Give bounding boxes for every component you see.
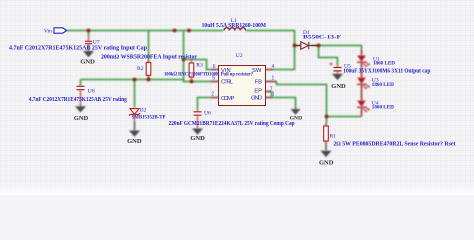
svg-text:U8: U8 — [88, 89, 95, 95]
LED U3 — [357, 63, 370, 90]
wire U5 branch — [319, 46, 338, 66]
node SW/L1/D1 — [293, 44, 297, 48]
capacitor U5 (polarized) — [330, 63, 342, 74]
svg-text:SW: SW — [252, 68, 262, 74]
capacitor U7 — [85, 37, 92, 49]
wire VIN pin jog — [184, 60, 211, 70]
node R3 tap — [182, 58, 186, 62]
ground under D2 — [127, 121, 142, 145]
svg-text:1860 LED: 1860 LED — [373, 61, 395, 67]
svg-text:10uH 5.5A SRR1260-100M: 10uH 5.5A SRR1260-100M — [202, 23, 267, 29]
svg-text:100kΩ RNCP1206FTD100K Pull up: 100kΩ RNCP1206FTD100K Pull up resistor? — [164, 71, 253, 77]
pin stub COMP 2 — [211, 97, 219, 99]
IC pin numbers — [211, 64, 274, 97]
node Vin/U7 — [87, 29, 91, 33]
wire COMP to U6 — [198, 98, 211, 111]
node D1/U5/LED — [317, 44, 321, 48]
svg-text:U2: U2 — [236, 53, 243, 59]
svg-text:1860 LED: 1860 LED — [372, 82, 394, 88]
capacitor U8 — [77, 85, 85, 104]
svg-text:6: 6 — [213, 64, 216, 70]
svg-text:U6: U6 — [204, 111, 211, 117]
svg-text:4: 4 — [272, 64, 275, 70]
svg-text:GND: GND — [319, 159, 334, 166]
resistor R1 — [324, 117, 329, 151]
svg-text:Vin: Vin — [44, 29, 52, 35]
svg-text:R3: R3 — [196, 62, 203, 68]
svg-text:200mΩ WSR5R200FEA Input resist: 200mΩ WSR5R200FEA Input resistor — [101, 54, 197, 60]
svg-text:2: 2 — [211, 91, 214, 97]
wire FB run — [277, 82, 327, 117]
diode D1 — [295, 42, 319, 49]
resistor R2 — [146, 63, 151, 76]
node rail D2 — [133, 78, 137, 82]
wire EP/GND to ground — [272, 92, 296, 107]
IC pin names — [221, 68, 262, 102]
wire FB dot to LED bottom — [327, 116, 362, 118]
svg-text:4.7nF C2012X7R1E475K125AB 25V: 4.7nF C2012X7R1E475K125AB 25V rating — [29, 97, 127, 103]
node FB/R1/LED — [325, 115, 329, 119]
ground under U5 — [331, 74, 346, 90]
pin stub EP 7 — [266, 91, 272, 93]
pin stub FB 1 — [266, 81, 277, 83]
capacitor U6 — [194, 111, 202, 129]
node rail R2 — [147, 78, 151, 82]
svg-text:COMP: COMP — [221, 96, 235, 102]
pin stub SW 4 — [266, 69, 274, 71]
svg-text:FB: FB — [255, 80, 263, 86]
ground under U6 — [190, 129, 205, 143]
port Vin — [54, 28, 67, 33]
wire inductor to corner and down to diode row — [246, 31, 295, 46]
svg-text:CTRL: CTRL — [221, 80, 234, 86]
svg-text:R2: R2 — [137, 66, 144, 72]
svg-text:100uF 35YXJ100M6 3X11 Output c: 100uF 35YXJ100M6 3X11 Output cap — [343, 69, 431, 75]
pin stub CTRL 5 — [211, 81, 219, 83]
svg-text:GND: GND — [251, 95, 262, 101]
resistor R3 — [189, 60, 194, 82]
svg-text:GND: GND — [190, 135, 205, 142]
svg-text:GND: GND — [80, 59, 95, 66]
pin stub GND 3 — [266, 97, 272, 99]
zener diode D2 — [129, 109, 140, 121]
svg-text:1860 LED: 1860 LED — [372, 105, 394, 111]
wire vertical Vin column to CTRL — [184, 31, 211, 82]
svg-text:B550C-13-F: B550C-13-F — [303, 34, 342, 40]
pin stub VIN 6 — [211, 69, 219, 71]
inductor L1 — [223, 30, 246, 32]
node top rail b — [187, 29, 191, 33]
svg-text:1: 1 — [272, 76, 275, 82]
wire R2 bottom to rail — [148, 75, 150, 79]
svg-text:GND: GND — [331, 83, 346, 90]
ground under U8 — [74, 104, 89, 122]
junction node dots — [87, 29, 329, 119]
IC U2 box — [219, 66, 266, 106]
wire SW branch — [274, 46, 295, 70]
svg-text:D2: D2 — [140, 107, 147, 113]
wire R2 column top — [148, 31, 150, 61]
ground under U7 — [80, 49, 95, 66]
ground under IC (EP/GND pins) — [290, 107, 302, 122]
LED U4 — [357, 85, 370, 117]
bottom fade — [0, 183, 474, 195]
LED U1 — [357, 50, 370, 68]
wire D2 branch — [134, 80, 136, 108]
svg-text:220nF GCM21BR71E224KA37L 25V r: 220nF GCM21BR71E224KA37L 25V rating Comp… — [169, 121, 296, 127]
ground under R1 — [319, 151, 334, 167]
svg-text:GND: GND — [74, 115, 89, 122]
wire U7 tap — [88, 31, 90, 37]
svg-text:SMBJ5352B-TP: SMBJ5352B-TP — [132, 115, 166, 121]
wire main top rail from Vin port to inductor — [67, 30, 224, 32]
node top rail a — [173, 29, 177, 33]
wire U8 corner down — [80, 80, 82, 86]
svg-text:R1: R1 — [330, 134, 337, 140]
svg-text:GND: GND — [127, 138, 142, 145]
node R3 bottom — [190, 80, 194, 84]
svg-text:2Ω 5W PE0805DRE470R2L Sense R: 2Ω 5W PE0805DRE470R2L Sense Resistor? Rs… — [333, 141, 455, 147]
wire lower rail — [81, 79, 184, 81]
svg-text:4.7nF C2012X7R1E475K125AB 25V: 4.7nF C2012X7R1E475K125AB 25V rating Inp… — [9, 45, 148, 51]
wire diode row — [295, 46, 362, 50]
svg-text:EP: EP — [254, 88, 262, 94]
svg-text:3: 3 — [272, 91, 275, 97]
